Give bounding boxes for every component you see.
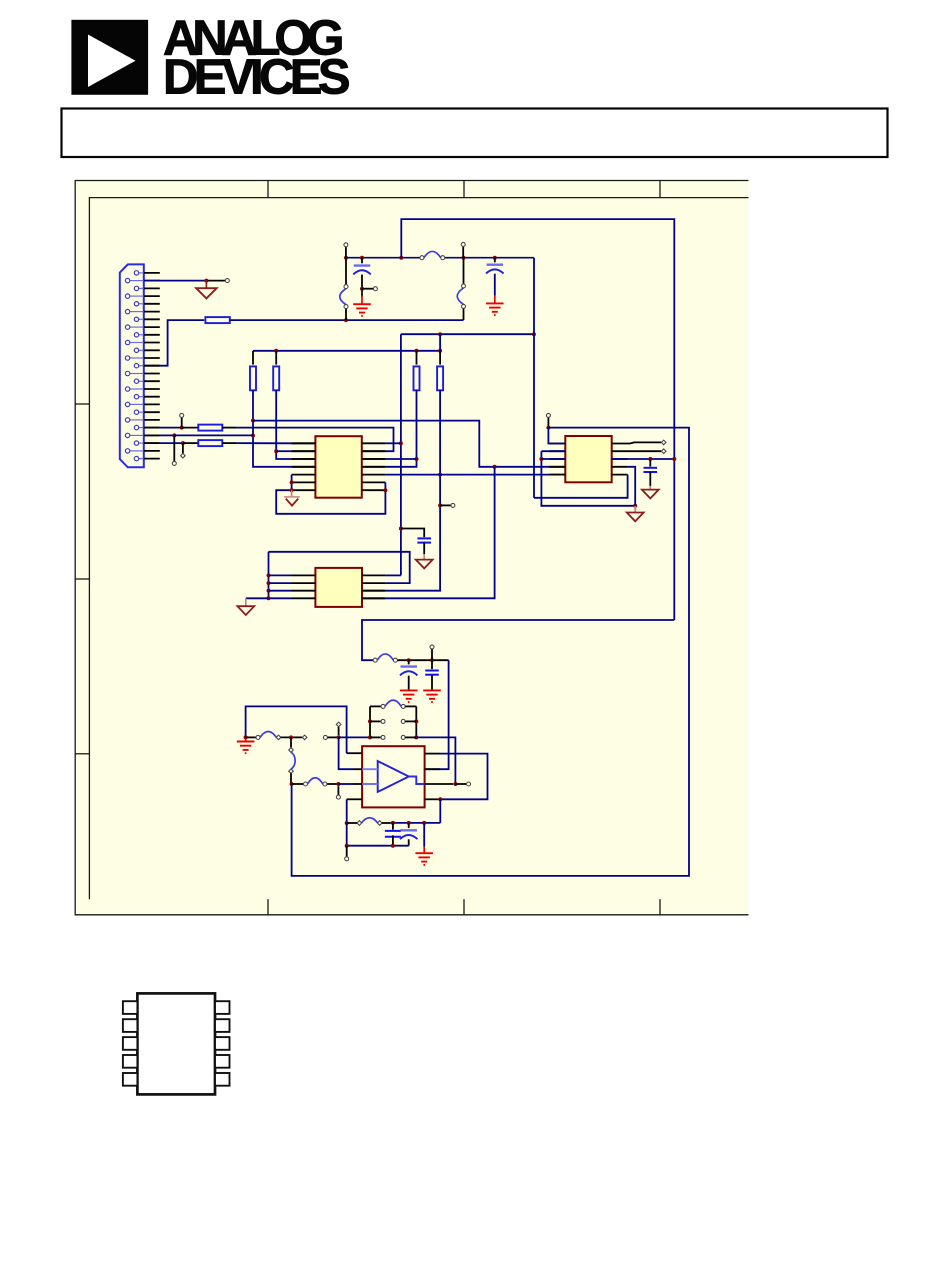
- wire stub to terminal: [345, 247, 347, 258]
- connector J1 (DB25) body: [120, 264, 144, 467]
- open terminal (diamond): [377, 821, 382, 826]
- wire U3 left strap: [268, 552, 270, 599]
- wire to U1 L2: [276, 450, 291, 452]
- ferrite bead FB5: [260, 732, 276, 738]
- junction: [274, 449, 278, 453]
- junction: [532, 332, 536, 336]
- wire supply to op-amp V+: [425, 660, 449, 769]
- wire R2 right lead: [222, 427, 236, 429]
- wire stub down: [337, 786, 339, 795]
- junction: [438, 473, 442, 477]
- wire stub row21: [144, 427, 160, 429]
- wire to U4 -in: [339, 737, 353, 769]
- junction: [399, 441, 403, 445]
- capacitor C7: [385, 831, 401, 837]
- wire row22: [160, 434, 175, 436]
- wire row13 to resistor R1: [160, 320, 204, 366]
- open terminal: [336, 795, 340, 799]
- wire U1 R5 to U2 L5: [385, 474, 549, 476]
- wire C6 bottom lead: [431, 675, 433, 690]
- wire stub row23: [144, 442, 160, 444]
- junction: [368, 719, 372, 723]
- junction: [422, 821, 426, 825]
- junction: [672, 457, 676, 461]
- junction: [244, 735, 248, 739]
- open terminal: [344, 243, 348, 247]
- junction: [391, 844, 395, 848]
- junction: [204, 279, 208, 283]
- wire stub down: [182, 443, 184, 453]
- ground GND7: [415, 853, 433, 865]
- open terminal (diamond): [357, 821, 362, 826]
- resistor R4: [250, 366, 256, 390]
- wire stub down: [346, 846, 348, 857]
- junction: [383, 488, 387, 492]
- wire down to C7/C8 row: [439, 799, 441, 823]
- wire stub U1 L2: [292, 450, 316, 452]
- junction: [251, 433, 255, 437]
- open terminal: [180, 413, 184, 417]
- wire jumper to node: [328, 736, 339, 738]
- junction: [493, 465, 497, 469]
- wire stub row22: [144, 434, 160, 436]
- open terminal: [546, 413, 550, 417]
- wire R6 top lead: [416, 351, 418, 365]
- wire C2 top lead: [494, 258, 496, 263]
- junction: [399, 527, 403, 531]
- resistor R3: [198, 440, 222, 446]
- wire row22 to R4 net: [174, 434, 253, 436]
- wire row23: [160, 442, 183, 444]
- wire ladder row1 left: [370, 705, 381, 707]
- wire U2 R3 to +5V: [612, 458, 675, 460]
- junction: [274, 349, 278, 353]
- wire output stub: [455, 783, 466, 785]
- resistor R7: [437, 366, 443, 390]
- junction: [267, 581, 271, 585]
- wire C5 top lead: [408, 660, 410, 664]
- svg-text:DEVICES: DEVICES: [163, 50, 350, 104]
- junction: [336, 782, 340, 786]
- wire bead FB7 left lead: [292, 783, 304, 785]
- wire vertical x401: [400, 334, 402, 575]
- wire stub: [362, 288, 373, 290]
- wire R5 bottom to U1 pins: [276, 390, 291, 459]
- junction: [648, 457, 652, 461]
- wire stub U1 L1: [292, 442, 316, 444]
- wire U3 loop to R2: [269, 552, 410, 583]
- capacitor C4: [644, 468, 658, 472]
- op-amp U4 inner pin lines: [362, 769, 425, 784]
- junction: [407, 658, 411, 662]
- junction: [438, 503, 442, 507]
- wire stub: [206, 280, 225, 282]
- wire bead FB9 right lead: [382, 822, 391, 824]
- wire R5 top lead: [275, 351, 277, 365]
- wire: [439, 504, 441, 506]
- open terminal (diamond): [336, 722, 341, 727]
- ground AGND2 (open triangle): [627, 513, 644, 522]
- open terminal (diamond): [661, 440, 666, 445]
- wire ladder to output: [416, 737, 455, 784]
- wire stub to terminal: [462, 247, 464, 258]
- junction: [368, 735, 372, 739]
- IC U3: [315, 568, 362, 607]
- wire C4 top lead: [649, 459, 651, 467]
- wire R3 left lead: [183, 442, 198, 444]
- wire to U1 R3: [385, 458, 416, 460]
- wire stub U1 L4: [292, 466, 316, 468]
- wire U3 left pin: [269, 590, 292, 592]
- junction: [360, 287, 364, 291]
- ground AGND5 (open triangle): [416, 560, 433, 569]
- wire +5V to op-amp supply row: [362, 620, 674, 660]
- wire VIN rail y320: [230, 319, 464, 321]
- wire ground to U4 pin1: [246, 706, 347, 753]
- wire stub: [440, 504, 451, 506]
- wire U2 L2: [541, 450, 565, 452]
- wire to U4 +in: [338, 783, 353, 785]
- wire U1 bottom ground loop: [276, 482, 385, 513]
- junction: [360, 256, 364, 260]
- wire net y420 to U2 L4: [253, 421, 549, 467]
- junction: [267, 596, 271, 600]
- junction: [344, 256, 348, 260]
- junction: [438, 349, 442, 353]
- connector J1 pin circles and leads: [125, 271, 143, 461]
- open terminal: [323, 735, 327, 739]
- open terminal (diamond): [289, 769, 294, 774]
- wire R6 bottom to U1 pins: [385, 390, 416, 467]
- resistor R5: [273, 366, 279, 390]
- capacitor C8 (polarized): [400, 830, 418, 839]
- open terminal: [401, 719, 405, 723]
- wire net y334: [401, 333, 534, 335]
- wire stub U1 R4: [362, 466, 386, 468]
- wire ladder row1 right: [405, 705, 416, 707]
- wire C7/C8 bottom row: [347, 823, 409, 846]
- open terminal: [256, 735, 260, 739]
- wire U4 pin4 down: [346, 799, 348, 823]
- wire ladder row3 right: [405, 736, 416, 738]
- wire U1 L5-L7 chain: [291, 475, 293, 491]
- wire ladder row3 left: [370, 736, 381, 738]
- junction: [251, 419, 255, 423]
- resistor R1: [205, 317, 229, 323]
- wire C1 top lead: [361, 258, 363, 264]
- capacitor C6: [425, 671, 439, 675]
- wire bead FB6 bottom lead: [290, 773, 292, 784]
- ferrite bead FB1: [420, 251, 445, 259]
- open terminal: [381, 719, 385, 723]
- wire bead FB6 top lead: [290, 737, 292, 747]
- wire stub down: [173, 435, 175, 461]
- wire R3 right lead: [222, 442, 236, 444]
- wire bead FB5 left lead: [246, 736, 256, 738]
- ground AGND4 (open triangle): [237, 606, 254, 615]
- junction: [345, 821, 349, 825]
- ferrite bead FB2: [340, 285, 348, 309]
- wire C4 bottom lead: [649, 472, 651, 486]
- wire bead FB3 bottom lead: [463, 309, 465, 321]
- open terminal (diamond): [181, 453, 186, 458]
- IC U1: [315, 436, 361, 498]
- junction: [391, 821, 395, 825]
- connector J1 pin stubs: [144, 273, 160, 459]
- open terminal (diamond): [276, 735, 281, 740]
- junction: [493, 256, 497, 260]
- open terminal: [430, 645, 434, 649]
- junction: [267, 573, 271, 577]
- wire stub row13: [144, 365, 160, 367]
- junction: [172, 433, 176, 437]
- wire U1 R1 to x401: [385, 442, 401, 444]
- wire bead FB9 left lead: [347, 822, 358, 824]
- wire ladder row2 left: [370, 720, 381, 722]
- wire to ground: [423, 823, 425, 847]
- ground GND4: [400, 690, 418, 702]
- ferrite bead FB8: [381, 700, 405, 708]
- resistor R2: [198, 425, 222, 431]
- ferrite bead FB6: [291, 752, 295, 769]
- junction: [539, 457, 543, 461]
- capacitor C1 (polarized): [353, 266, 371, 275]
- wire U2 R1 stub: [612, 442, 662, 443]
- ground AGND3 (open triangle): [642, 490, 659, 499]
- op-amp U4 triangle: [378, 761, 409, 792]
- junction: [414, 719, 418, 723]
- ferrite bead FB4: [373, 654, 397, 662]
- ferrite bead FB7: [304, 778, 327, 786]
- title bar box: [62, 109, 888, 158]
- wire rail y258 right segment: [445, 257, 534, 259]
- wire stub U3 R3: [362, 590, 385, 592]
- wire U2 R5 wrap: [534, 475, 628, 498]
- resistor R6: [414, 366, 420, 390]
- schematic sheet background: [75, 181, 748, 915]
- junction: [267, 589, 271, 593]
- junction: [438, 332, 442, 336]
- wire +5V rail top loop: [401, 219, 674, 620]
- wire C7 top lead: [392, 823, 394, 830]
- wire stub U3 R4: [362, 597, 385, 599]
- ground GND2: [353, 304, 371, 316]
- open terminal (diamond): [289, 748, 294, 753]
- IC U1 pin stubs: [292, 443, 386, 490]
- wire C8 bottom lead: [408, 839, 410, 845]
- IC U3 pin stubs: [292, 575, 386, 598]
- wire row23 to U1 L1: [236, 442, 292, 444]
- junction: [344, 318, 348, 322]
- junction: [430, 658, 434, 662]
- open terminal: [381, 735, 385, 739]
- wire R4 bottom to U1 pin: [253, 390, 292, 467]
- wire stub up: [338, 727, 340, 736]
- wire to U3 R4: [385, 467, 494, 599]
- wire bead FB2 bottom lead: [345, 309, 347, 320]
- wire net DGND row2: [144, 280, 207, 282]
- open terminal: [451, 503, 455, 507]
- wire C2 bottom lead: [494, 274, 496, 296]
- op-amp U4 body: [362, 746, 425, 807]
- wire pull-up rail y351: [253, 350, 440, 352]
- wire U2 L1 to op-amp +in loop: [292, 428, 689, 876]
- wire row21 to U1 R2: [236, 428, 394, 452]
- wire C3 bottom lead: [423, 543, 425, 555]
- junction: [546, 426, 550, 430]
- wire U2 R2 stub: [612, 450, 662, 452]
- IC U2: [565, 436, 611, 482]
- wire vertical x534: [533, 258, 535, 498]
- open terminal: [172, 461, 176, 465]
- wire C8 top lead: [408, 823, 410, 828]
- wire stub: [431, 649, 433, 660]
- junction: [438, 797, 442, 801]
- junction: [289, 735, 293, 739]
- open terminal (diamond): [661, 449, 666, 454]
- wire row21: [160, 427, 182, 429]
- wire ladder left strap: [369, 706, 371, 737]
- wire R7 top lead: [439, 351, 441, 365]
- wire U3 ground: [246, 597, 269, 599]
- wire from y334 net to R7: [439, 334, 441, 351]
- wire U2 R4 to ground: [628, 467, 636, 506]
- open terminal: [401, 735, 405, 739]
- wire U4 R1 to R4 loop: [440, 754, 488, 800]
- open terminal: [373, 287, 377, 291]
- capacitor C5 (polarized): [400, 667, 418, 676]
- wire U3 left pin: [269, 574, 292, 576]
- wire stub U1 L3: [292, 458, 316, 460]
- wire stub U2 L4: [549, 466, 565, 468]
- wire U3 R1: [385, 574, 401, 576]
- wire C3 top lead: [401, 529, 424, 538]
- Analog Devices logo text: [163, 11, 350, 104]
- wire U3 L4: [269, 597, 292, 599]
- open terminal: [467, 782, 471, 786]
- wire U2 L1: [548, 428, 565, 444]
- wire stub: [547, 418, 549, 428]
- open terminal: [345, 857, 349, 861]
- open terminal: [461, 242, 465, 246]
- junction: [415, 349, 419, 353]
- wire C1 bottom lead: [361, 275, 363, 289]
- wire R2 left lead: [182, 427, 199, 429]
- open terminal (diamond): [302, 735, 307, 740]
- wire ladder row2 right: [405, 720, 416, 722]
- wire bead FB3 top lead: [463, 258, 465, 284]
- junction: [337, 735, 341, 739]
- junction: [290, 480, 294, 484]
- wire bead FB7 right lead: [327, 783, 338, 785]
- IC package outline (SOIC-10 top view): [123, 993, 230, 1094]
- wire C7 bottom lead: [392, 835, 394, 845]
- Analog Devices logo mark: [71, 20, 148, 95]
- wire R4 top lead: [252, 351, 254, 365]
- open terminal: [225, 279, 229, 283]
- wire U3 left pin: [269, 582, 292, 584]
- ground GND6: [237, 742, 255, 754]
- wire stub U1 R2: [362, 450, 386, 452]
- ground GND5: [423, 690, 441, 702]
- ground GND3: [486, 303, 504, 315]
- wire stub U1 R3: [362, 458, 386, 460]
- junction: [415, 457, 419, 461]
- ground GND1 (open triangle): [196, 288, 216, 298]
- junction: [399, 256, 403, 260]
- wire bead FB2 top lead: [345, 258, 347, 285]
- junction: [453, 782, 457, 786]
- junction: [407, 821, 411, 825]
- capacitor C2 (polarized): [486, 265, 504, 274]
- wire R7 bottom / to U3 R3: [385, 390, 440, 590]
- junction: [345, 844, 349, 848]
- junction: [181, 441, 185, 445]
- junction: [290, 488, 294, 492]
- ferrite bead FB9: [361, 818, 377, 823]
- junction: [633, 504, 637, 508]
- wire to jumper: [281, 736, 302, 738]
- junction: [414, 735, 418, 739]
- junction: [462, 256, 466, 260]
- wire C6 top lead: [431, 660, 433, 669]
- wire C5 bottom lead: [408, 676, 410, 691]
- wire stub U2 L5: [549, 474, 565, 476]
- ground AGND (faded): [284, 497, 300, 506]
- junction: [290, 782, 294, 786]
- ferrite bead FB3: [457, 284, 465, 309]
- capacitor C3: [417, 538, 431, 542]
- wire U2 L2/L3 ground run: [541, 451, 635, 506]
- wire ladder right strap: [415, 706, 417, 737]
- wire rail y258 left segment: [346, 257, 420, 259]
- wire U2 L3: [541, 458, 565, 460]
- wire stub up: [181, 418, 183, 428]
- op-amp U4 pin stubs: [347, 753, 454, 799]
- wire C7/C8 top row: [391, 822, 441, 824]
- wire supply row: [398, 659, 449, 661]
- wire to feedback ladder: [339, 736, 370, 738]
- IC U2 pin stubs: [549, 444, 627, 475]
- junction: [180, 426, 184, 430]
